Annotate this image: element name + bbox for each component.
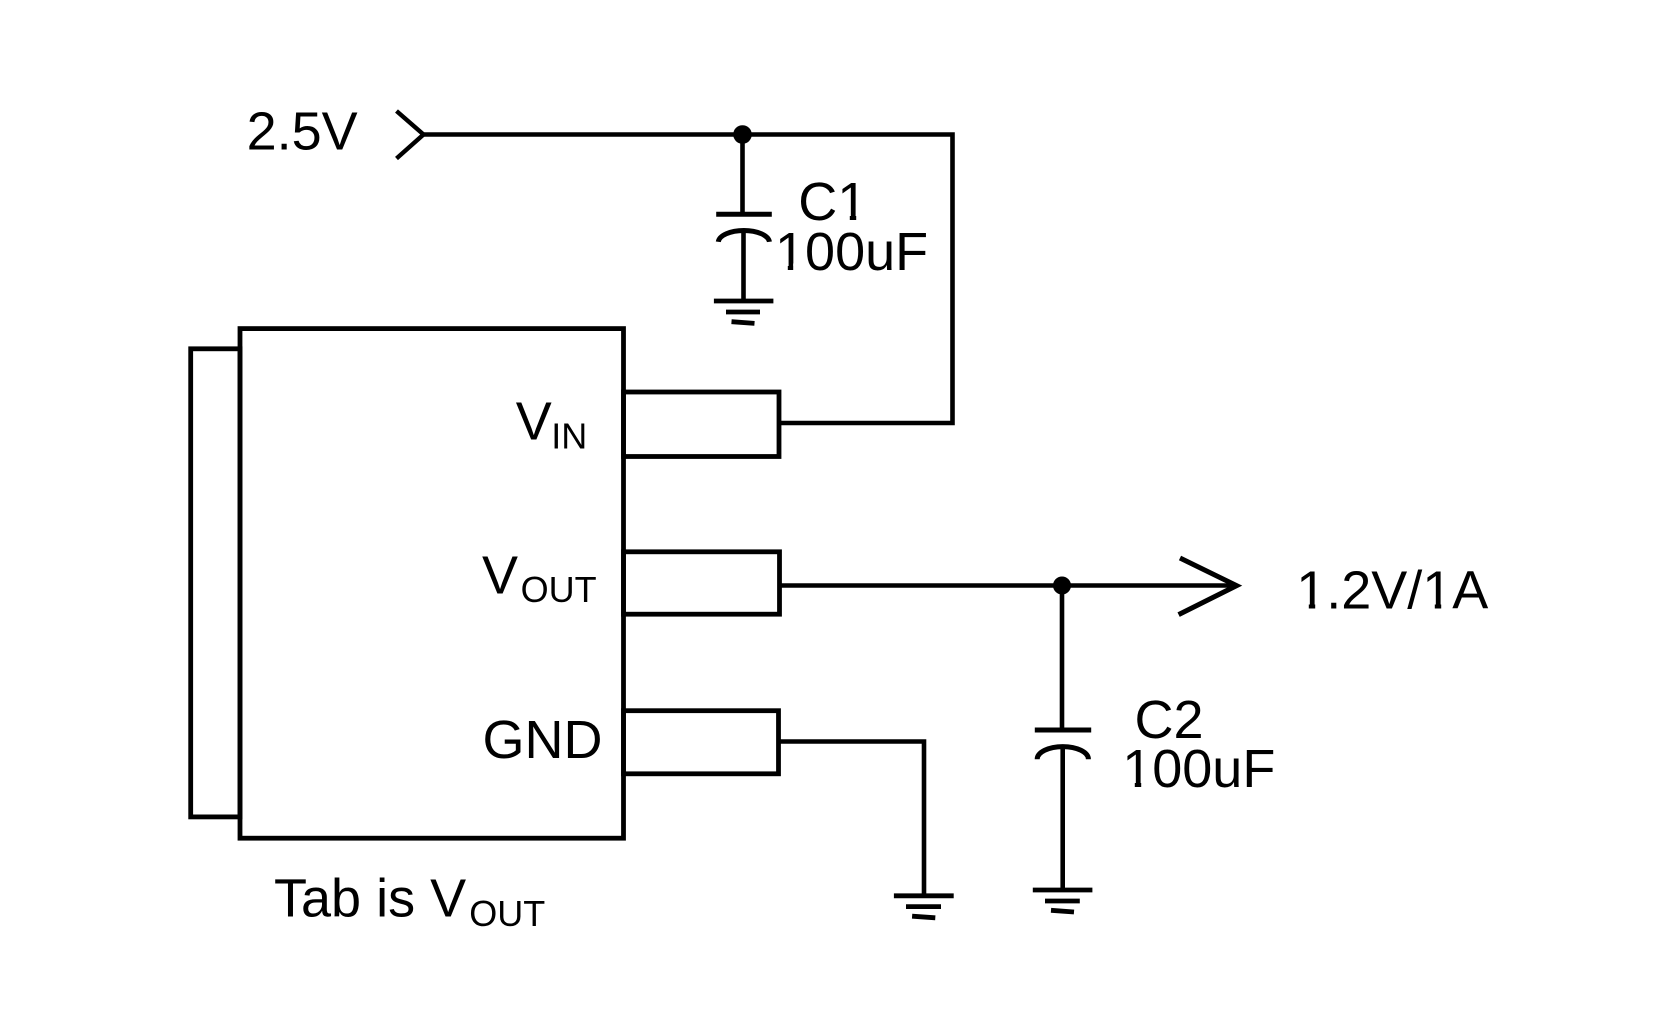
- svg-text:GND: GND: [483, 710, 603, 770]
- svg-text:100uF: 100uF: [775, 222, 928, 282]
- svg-text:IN: IN: [551, 416, 587, 457]
- svg-text:2.5V: 2.5V: [247, 102, 358, 162]
- svg-text:100uF: 100uF: [1122, 739, 1275, 799]
- svg-text:V: V: [516, 392, 552, 452]
- svg-text:OUT: OUT: [469, 893, 545, 934]
- svg-text:1.2V/1A: 1.2V/1A: [1296, 560, 1488, 620]
- svg-text:V: V: [482, 545, 518, 605]
- svg-text:OUT: OUT: [521, 569, 597, 610]
- svg-text:Tab is V: Tab is V: [274, 869, 466, 929]
